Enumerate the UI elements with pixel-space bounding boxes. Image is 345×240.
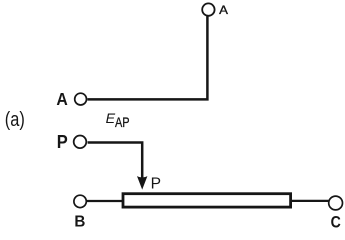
wire resistor body to terminal C	[291, 200, 329, 202]
svg-text:AP: AP	[115, 115, 130, 130]
terminal A (top)	[202, 3, 214, 15]
svg-text:A: A	[219, 3, 229, 17]
terminal B	[74, 195, 86, 207]
wire from terminal A (top) down and left to terminal A	[87, 16, 207, 99]
svg-text:C: C	[331, 214, 341, 232]
svg-text:P: P	[57, 132, 68, 152]
terminal A (left)	[75, 93, 87, 105]
terminal C	[329, 196, 343, 210]
svg-text:B: B	[74, 214, 85, 231]
svg-text:A: A	[56, 89, 68, 109]
terminal P	[74, 136, 87, 149]
potentiometer resistor body B-C	[123, 194, 291, 207]
svg-text:P: P	[151, 175, 161, 192]
wire terminal B to resistor body	[87, 200, 123, 202]
wiper arrowhead	[137, 176, 147, 190]
wire from terminal P right then down to wiper arrow	[88, 143, 143, 179]
svg-text:(a): (a)	[5, 109, 25, 131]
